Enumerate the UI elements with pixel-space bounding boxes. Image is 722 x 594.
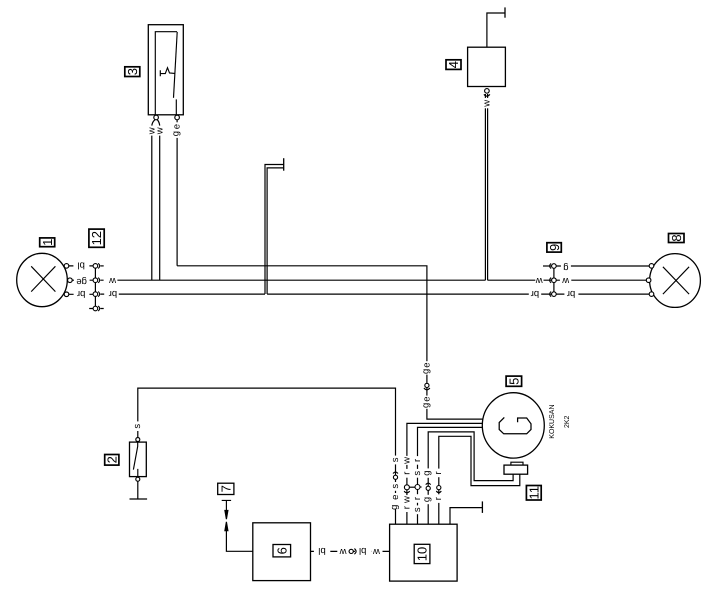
wire lamp1 bl terminal to connector 12: [69, 265, 94, 267]
wire w row right (comp 4 to connector 9 to lamp 8): [488, 279, 649, 281]
svg-text:bl: bl: [77, 259, 84, 270]
svg-text:12: 12: [89, 231, 104, 245]
labels col5 r o r: [435, 469, 443, 478]
svg-text:e: e: [421, 396, 432, 401]
label ge lamp1 row2: [74, 275, 90, 286]
lamp 1 (circle with X): [17, 253, 72, 306]
svg-text:bl: bl: [359, 545, 366, 556]
wire ground pair left vertical: [265, 165, 284, 295]
svg-text:bl: bl: [318, 545, 325, 556]
svg-text:9: 9: [547, 244, 562, 251]
label bl lamp1 row1: [73, 261, 89, 271]
wire bl stub right of connector 12: [100, 265, 103, 267]
svg-text:g: g: [420, 403, 431, 408]
wire col4 comp11 to comp10 (g): [428, 432, 513, 524]
label ge comp3 stacked: [173, 122, 182, 138]
wire connector 9 row1 stub left: [543, 265, 552, 267]
label w right of connector 12: [104, 275, 118, 286]
wire ge row (comp3 to generator, node ge): [177, 266, 483, 419]
CDI unit 10: [390, 524, 458, 581]
wire connector 12 strip: [94, 266, 96, 309]
svg-text:g: g: [171, 131, 182, 136]
svg-text:3: 3: [125, 68, 140, 75]
label br left of connector 9: [529, 289, 541, 299]
svg-text:KOKUSAN: KOKUSAN: [549, 404, 556, 438]
svg-text:w: w: [401, 457, 412, 465]
labels col4 g o g: [424, 468, 433, 477]
switch 3 (handlebar switch): [148, 25, 183, 120]
connector col2 circle: [404, 485, 409, 490]
wire connector 9 strip: [553, 266, 555, 294]
labels bl w left of comp6-comp10 connector: [314, 546, 330, 556]
svg-text:g: g: [389, 505, 400, 510]
svg-text:w: w: [562, 275, 570, 286]
label box 11: [526, 486, 541, 501]
wire comp10 to ground: [450, 508, 482, 525]
wire comp3 w left branch: [152, 120, 155, 280]
connector comp6-comp10 circle: [349, 549, 353, 553]
ground bar comp10: [481, 501, 483, 513]
svg-text:2K2: 2K2: [564, 415, 571, 428]
svg-text:s: s: [412, 507, 423, 512]
wire s comp2 up and over to comp10 col1: [138, 388, 396, 524]
label box 9 (connector): [547, 243, 562, 252]
label s above comp2: [133, 421, 142, 431]
svg-text:11: 11: [527, 486, 542, 500]
label g right of connector 9: [561, 261, 571, 271]
svg-text:r: r: [401, 506, 412, 509]
wire comp2 to ground: [137, 481, 139, 499]
label br right of connector 9 row3: [564, 289, 578, 299]
label box 2: [105, 455, 120, 466]
svg-text:ge: ge: [76, 276, 87, 287]
label br lamp1 row3: [74, 289, 90, 299]
labels col2 w r o w r: [402, 456, 411, 465]
spark plug 7: [218, 483, 234, 531]
svg-text:w: w: [536, 275, 544, 286]
svg-text:w: w: [373, 546, 381, 557]
labels col3 r s o r s: [414, 456, 422, 465]
comp 4 (brake light switch box): [468, 47, 506, 96]
svg-text:5: 5: [506, 378, 521, 385]
svg-text:g: g: [420, 369, 431, 374]
labels col1 s o s ge: [391, 456, 400, 465]
connector 12 contacts: [93, 264, 98, 269]
svg-text:r: r: [433, 471, 444, 474]
svg-text:g: g: [422, 497, 433, 502]
connector col4 circle: [426, 483, 431, 485]
wire connector 9 g row to lamp 8: [556, 265, 649, 267]
label box 3: [125, 67, 140, 77]
label box 1: [40, 238, 55, 247]
svg-text:w: w: [339, 546, 347, 557]
svg-text:w: w: [109, 275, 117, 286]
svg-text:1: 1: [40, 239, 55, 246]
wire comp3 ge down: [176, 120, 178, 266]
connector mid ge circle: [425, 383, 429, 387]
label w left of connector 9: [535, 275, 543, 286]
switch 2 (kill switch): [130, 438, 147, 482]
label br right of connector 12: [104, 289, 119, 299]
wire w row left (connector 12 to comp 4): [100, 279, 485, 281]
svg-text:br: br: [77, 288, 85, 299]
wire comp3 w right branch: [157, 120, 159, 280]
svg-text:s: s: [390, 484, 401, 489]
svg-text:g: g: [422, 470, 433, 475]
wire col3 generator to comp10 (s r): [418, 427, 483, 524]
LABEL_GAPS: [73, 98, 578, 557]
connector col1 circle: [393, 472, 398, 474]
wire comp7 to comp6: [226, 531, 252, 552]
label ge above mid connector on ge wire: [422, 361, 431, 374]
connector col3 circle: [415, 485, 420, 490]
svg-text:6: 6: [275, 547, 290, 554]
wire comp6 to comp10 (bl w): [311, 550, 390, 552]
svg-text:8: 8: [669, 234, 684, 241]
svg-text:w: w: [481, 100, 492, 108]
ignition coil 6: [253, 523, 311, 581]
label w comp3 branch right: [156, 126, 165, 136]
wire comp4 right vertical to w row: [487, 94, 489, 280]
svg-text:w: w: [154, 127, 165, 135]
label box 12 (connector): [89, 229, 104, 247]
connector 9 contacts: [552, 264, 557, 269]
label w comp3 branch left: [147, 126, 156, 136]
svg-text:2: 2: [105, 456, 120, 463]
svg-text:w: w: [401, 496, 412, 504]
label w comp4: [482, 98, 492, 108]
connector 11 block under generator: [504, 462, 528, 474]
label ge below mid connector on ge wire: [422, 396, 431, 409]
wire br row left (connector 12 to ground pair): [100, 293, 265, 295]
svg-text:r: r: [412, 459, 423, 462]
svg-text:e: e: [390, 495, 401, 500]
wire comp4 to ground: [487, 13, 505, 47]
label box 8: [669, 234, 685, 243]
svg-text:s: s: [132, 424, 143, 429]
svg-text:br: br: [567, 288, 575, 299]
ground bar mid: [283, 158, 285, 171]
svg-text:br: br: [531, 288, 539, 299]
ground bar comp4: [504, 7, 506, 17]
svg-text:7: 7: [219, 485, 234, 492]
wire tie col2-col3 connectors: [409, 486, 415, 488]
lamp 8 (circle with X): [646, 254, 700, 308]
wire lamp1 ge terminal to connector 12: [72, 279, 93, 281]
wire br row right (ground pair to connector 9 to lamp 8): [267, 293, 651, 295]
svg-text:e: e: [421, 362, 432, 367]
label box 5: [506, 376, 521, 386]
labels bl w right of comp6-comp10 connector: [355, 546, 371, 556]
svg-text:10: 10: [415, 547, 430, 561]
generator 5 (KOKUSAN magneto): [482, 393, 544, 458]
ground bar comp2: [130, 498, 148, 500]
CONNECTOR_SYMBOLS: [93, 263, 556, 554]
svg-text:r: r: [401, 472, 412, 475]
label KOKUSAN 2K2: [549, 404, 571, 438]
svg-text:4: 4: [446, 61, 461, 68]
wire col2 generator to comp10 (w r): [407, 423, 482, 524]
svg-text:r: r: [433, 497, 444, 500]
wire comp4 left vertical to w row: [484, 94, 486, 280]
wire connector 12 row4 stubs: [89, 308, 104, 310]
wire col5 comp11 to comp10 (r): [439, 436, 520, 524]
wire lamp1 br terminal to connector 12: [69, 293, 94, 295]
svg-text:g: g: [563, 262, 568, 273]
connector col5 circle: [437, 486, 441, 490]
wire ground pair right vertical: [267, 168, 284, 294]
label w right of connector 9 row2: [560, 275, 571, 286]
svg-text:e: e: [172, 124, 183, 129]
label box 4: [446, 60, 461, 70]
svg-text:br: br: [109, 288, 117, 299]
svg-text:s: s: [390, 457, 401, 462]
